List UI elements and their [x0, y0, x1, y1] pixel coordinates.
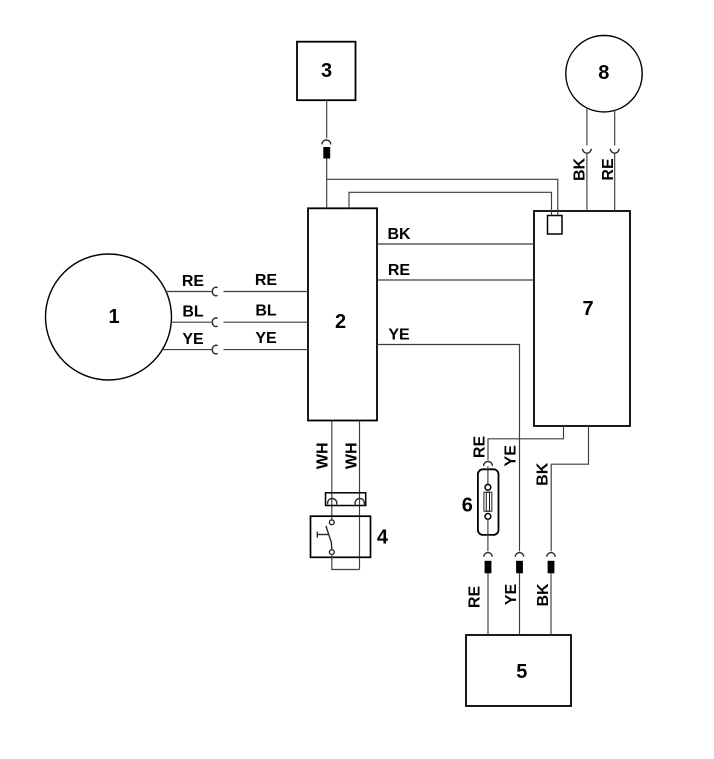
connector block above switch [326, 493, 366, 506]
wire from circle 8 left (BK) [586, 108, 588, 146]
wire YE connector to box2 [224, 349, 309, 351]
svg-text:WH: WH [344, 442, 361, 469]
component 4 (switch box) [311, 516, 371, 557]
connector box on top of component 7 [548, 216, 563, 235]
svg-text:YE: YE [503, 445, 520, 467]
connector dome YE bottom [515, 553, 523, 557]
component 3 (box) [297, 42, 356, 100]
svg-text:4: 4 [377, 527, 389, 549]
svg-text:BK: BK [387, 226, 411, 243]
wire RE from box7 bottom [488, 426, 564, 460]
wire BK from box7 bottom [551, 426, 588, 551]
component 6 (fuse holder) [478, 469, 499, 535]
wire cup to box7 (RE) [614, 153, 616, 211]
wire YE box2 to bottom connector [377, 345, 520, 552]
fuse top terminal [485, 484, 491, 490]
connector male BK bottom [548, 561, 555, 574]
wire switch return loop [332, 555, 360, 570]
wire connector to box2 top [326, 159, 328, 209]
wire YE circle1 to connector [163, 349, 212, 351]
connector dome RE bottom [484, 553, 492, 557]
wire RE connector to box2 [224, 291, 309, 293]
wire WH left box2 bottom to switch [331, 421, 333, 520]
wire cup to box7 (BK) [586, 153, 588, 211]
svg-text:YE: YE [182, 331, 204, 348]
switch top contact [329, 520, 334, 525]
svg-text:7: 7 [582, 298, 593, 320]
connector dome left in block [328, 499, 337, 505]
component 5 (box) [466, 635, 571, 706]
svg-text:YE: YE [388, 327, 410, 344]
connector RE (female bullet) [212, 287, 217, 296]
wire from circle 8 right (RE) [614, 110, 616, 145]
svg-text:YE: YE [503, 584, 520, 606]
wire RE circle1 to connector [166, 291, 212, 293]
svg-text:RE: RE [600, 158, 617, 181]
svg-text:BK: BK [535, 462, 552, 486]
svg-text:RE: RE [471, 436, 488, 459]
svg-text:5: 5 [516, 661, 527, 683]
svg-text:BK: BK [535, 583, 552, 607]
fuse bottom terminal [485, 514, 491, 520]
svg-text:RE: RE [388, 262, 411, 279]
svg-text:YE: YE [255, 330, 277, 347]
fuse element outer [484, 492, 492, 511]
connector cup RE [610, 149, 619, 153]
connector cup BK [583, 149, 592, 153]
component 1 (circle) [46, 254, 172, 380]
component 2 (box) [308, 208, 377, 420]
svg-text:BL: BL [182, 304, 204, 321]
connector male YE bottom [516, 561, 523, 574]
wire RE box2 to box7 [377, 279, 534, 281]
svg-text:3: 3 [321, 60, 332, 82]
svg-text:RE: RE [255, 272, 278, 289]
svg-text:8: 8 [598, 62, 609, 84]
wire tee to connector box on 7 (outer) [327, 179, 558, 215]
connector BL (female bullet) [212, 318, 217, 327]
wire BK box2 to box7 [377, 243, 534, 245]
svg-text:BK: BK [572, 158, 589, 182]
fuse wire out [487, 519, 489, 551]
svg-text:WH: WH [314, 442, 331, 469]
connector male RE bottom [485, 561, 492, 574]
svg-text:RE: RE [182, 273, 205, 290]
connector YE (female bullet) [212, 345, 217, 354]
wire BL connector to box2 [224, 321, 309, 323]
wire BL circle1 to connector [171, 321, 212, 323]
switch blade [326, 526, 332, 550]
switch bottom contact [329, 550, 334, 555]
fuse wire in [487, 466, 489, 485]
component 7 (box) [534, 211, 630, 426]
connector under 3 (male black) [323, 147, 330, 159]
component 8 (circle) [566, 35, 642, 111]
svg-text:1: 1 [108, 306, 119, 328]
fuse element inner [486, 492, 489, 511]
svg-text:BL: BL [255, 303, 277, 320]
svg-text:RE: RE [467, 586, 484, 609]
svg-text:6: 6 [462, 495, 473, 517]
switch actuator T [317, 534, 328, 536]
wire BK to box5 [550, 573, 552, 635]
wire box2 top to connector box on 7 (inner) [349, 192, 552, 215]
wire WH right box2 bottom down [359, 421, 361, 570]
connector under 3 (female dome) [322, 140, 331, 144]
wire RE to box5 [487, 573, 489, 635]
connector dome BK bottom [547, 553, 555, 557]
wire from component 3 down [326, 100, 328, 138]
svg-text:2: 2 [335, 311, 346, 333]
connector dome right in block [355, 499, 364, 505]
wire YE to box5 [519, 573, 521, 635]
connector dome above fuse [484, 462, 493, 466]
